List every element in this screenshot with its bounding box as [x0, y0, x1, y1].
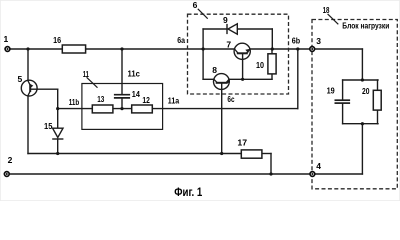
- svg-text:1: 1: [4, 34, 9, 44]
- svg-text:16: 16: [53, 35, 61, 45]
- svg-text:11c: 11c: [128, 69, 141, 79]
- svg-text:13: 13: [97, 94, 104, 104]
- svg-text:11a: 11a: [168, 96, 180, 106]
- svg-text:Фиг. 1: Фиг. 1: [174, 187, 203, 199]
- svg-text:2: 2: [8, 155, 13, 165]
- svg-text:6b: 6b: [292, 35, 300, 45]
- svg-text:8: 8: [212, 65, 217, 75]
- svg-text:14: 14: [132, 89, 140, 99]
- svg-text:17: 17: [237, 138, 247, 148]
- svg-text:6a: 6a: [177, 35, 185, 45]
- svg-text:Блок нагрузки: Блок нагрузки: [342, 20, 389, 30]
- svg-text:6c: 6c: [227, 94, 234, 104]
- svg-text:4: 4: [316, 161, 321, 171]
- svg-text:10: 10: [256, 60, 264, 70]
- svg-text:20: 20: [362, 86, 370, 96]
- svg-text:7: 7: [226, 40, 231, 50]
- svg-text:18: 18: [323, 5, 330, 15]
- svg-text:11b: 11b: [69, 97, 79, 107]
- svg-text:19: 19: [327, 86, 335, 96]
- svg-text:12: 12: [142, 95, 150, 105]
- svg-text:6: 6: [193, 0, 198, 10]
- svg-text:11: 11: [83, 69, 89, 79]
- svg-text:3: 3: [316, 36, 321, 46]
- svg-text:15: 15: [44, 121, 53, 131]
- svg-text:9: 9: [223, 15, 228, 25]
- svg-text:5: 5: [18, 74, 23, 84]
